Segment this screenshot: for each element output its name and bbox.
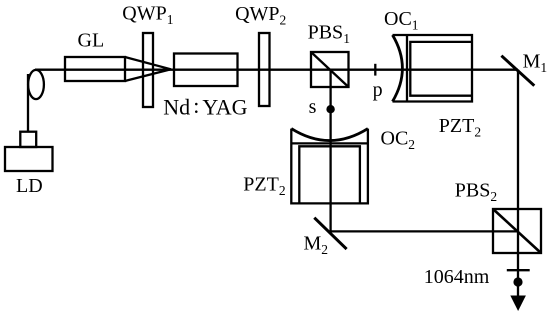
label p (373, 79, 383, 101)
label PZT2 bottom (243, 174, 285, 199)
label s (309, 96, 317, 118)
node output dot (513, 277, 522, 286)
svg-text:PZT2: PZT2 (439, 115, 481, 140)
label QWP2 (235, 3, 286, 28)
lens GL (65, 57, 171, 81)
svg-text:LD: LD (16, 175, 43, 197)
waveplate QWP1 (143, 33, 153, 107)
label PZT2 top (439, 115, 481, 140)
label Nd:YAG (163, 93, 247, 120)
svg-text:M2: M2 (304, 233, 329, 258)
svg-text:p: p (373, 79, 383, 101)
svg-text:PBS2: PBS2 (455, 179, 497, 204)
mirror M2 (314, 218, 346, 249)
waveplate QWP2 (259, 33, 270, 106)
svg-text:PBS1: PBS1 (308, 21, 350, 46)
mirror M1 (501, 56, 534, 86)
svg-text:QWP2: QWP2 (235, 3, 286, 28)
laser crystal Nd:YAG (174, 54, 238, 87)
output coupler OC1 (393, 35, 473, 102)
label QWP1 (122, 3, 173, 28)
fiber wire (27, 74, 29, 132)
label PBS1 (308, 21, 350, 46)
beamsplitter PBS1 (311, 52, 349, 87)
output coupler OC2 (291, 129, 368, 204)
label PBS2 (455, 179, 497, 204)
svg-text:Nd:YAG: Nd:YAG (163, 93, 247, 120)
label M2 (304, 233, 329, 258)
node s dot (326, 105, 334, 113)
label 1064nm (424, 266, 490, 288)
label OC2 (381, 128, 416, 153)
svg-text:GL: GL (78, 30, 105, 52)
svg-text:OC2: OC2 (381, 128, 416, 153)
svg-text:PZT2: PZT2 (243, 174, 285, 199)
svg-text:OC1: OC1 (384, 8, 419, 33)
arrow output (510, 296, 526, 312)
coupling lens (28, 70, 44, 99)
beamsplitter PBS2 (493, 209, 541, 253)
svg-text:M1: M1 (523, 51, 548, 76)
wire M2 to PBS2 (331, 230, 518, 232)
svg-text:QWP1: QWP1 (122, 3, 173, 28)
label LD (16, 175, 43, 197)
label GL (78, 30, 105, 52)
label M1 (523, 51, 548, 76)
svg-text:s: s (309, 96, 317, 118)
wire main beam (35, 69, 518, 71)
wire s beam (329, 70, 331, 232)
laser diode LD (5, 132, 53, 171)
svg-text:1064nm: 1064nm (424, 266, 490, 288)
label OC1 (384, 8, 419, 33)
polarization tick output (507, 269, 530, 271)
polarization tick p (374, 64, 376, 76)
wire output beam vertical (517, 70, 519, 299)
